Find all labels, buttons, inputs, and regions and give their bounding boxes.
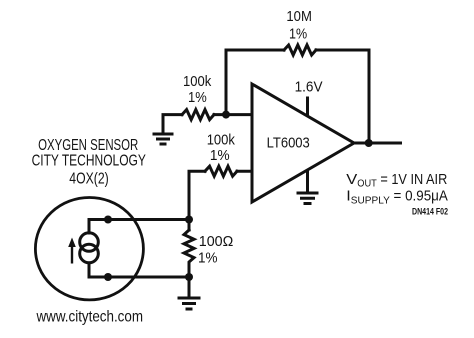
wire op-amp output: [354, 142, 401, 145]
wire sensor bottom rail: [89, 276, 189, 279]
wire sensor left vertical bottom: [88, 263, 91, 277]
resistor 10M: [284, 45, 316, 55]
svg-text:1%: 1%: [198, 250, 218, 267]
sensor outline circle: [35, 198, 143, 300]
node dot: output junction: [365, 139, 373, 147]
wire feedback left vertical + top: [226, 50, 284, 115]
node dot: inverting input junction: [222, 111, 230, 119]
ground G2 (op-amp): [297, 193, 319, 204]
svg-text:100k: 100k: [183, 73, 212, 90]
node dot: sensor top terminal: [104, 216, 112, 224]
wire sensor top rail: [89, 218, 189, 221]
resistor 100k R2: [205, 166, 237, 176]
ground G3 (bottom, by 100ohm): [178, 298, 201, 309]
wire op-amp supply stub: [306, 98, 309, 116]
ground G1 (left, by R1): [153, 134, 174, 144]
resistor 100ohm zigzag: [184, 230, 194, 266]
svg-text:www.citytech.com: www.citytech.com: [36, 309, 143, 326]
svg-text:4OX(2): 4OX(2): [69, 171, 108, 188]
svg-text:100Ω: 100Ω: [199, 233, 234, 250]
svg-text:1%: 1%: [188, 89, 207, 106]
op-amp U1 LT6003 triangle: [252, 84, 354, 202]
current direction arrow: [68, 238, 76, 264]
wire feedback top right + right vertical to output: [316, 50, 369, 143]
svg-text:DN414 F02: DN414 F02: [412, 206, 448, 216]
wire op-amp ground stub: [306, 167, 309, 192]
resistor 100ohm vertical leads: [188, 220, 191, 298]
wire sensor node up to second 100k: [189, 171, 205, 219]
svg-text:100k: 100k: [207, 132, 236, 149]
wire ground stub to first 100k: [163, 115, 182, 133]
node dot: 100ohm bottom junction: [185, 273, 193, 281]
svg-text:10M: 10M: [286, 8, 312, 25]
svg-text:1%: 1%: [289, 25, 307, 42]
svg-text:LT6003: LT6003: [267, 134, 310, 151]
current source symbol (two overlapping circles): [80, 233, 99, 252]
svg-text:1.6V: 1.6V: [295, 79, 323, 96]
node dot: 100ohm top junction: [185, 216, 193, 224]
wire sensor left vertical top: [88, 220, 91, 234]
svg-text:CITY TECHNOLOGY: CITY TECHNOLOGY: [32, 152, 146, 169]
wire R1 to op-amp inverting input: [214, 113, 252, 116]
svg-text:1%: 1%: [210, 147, 230, 164]
resistor 100k R1: [182, 110, 214, 120]
wire R2 to op-amp non-inverting input: [237, 170, 252, 173]
node dot: sensor bottom terminal: [104, 273, 112, 281]
